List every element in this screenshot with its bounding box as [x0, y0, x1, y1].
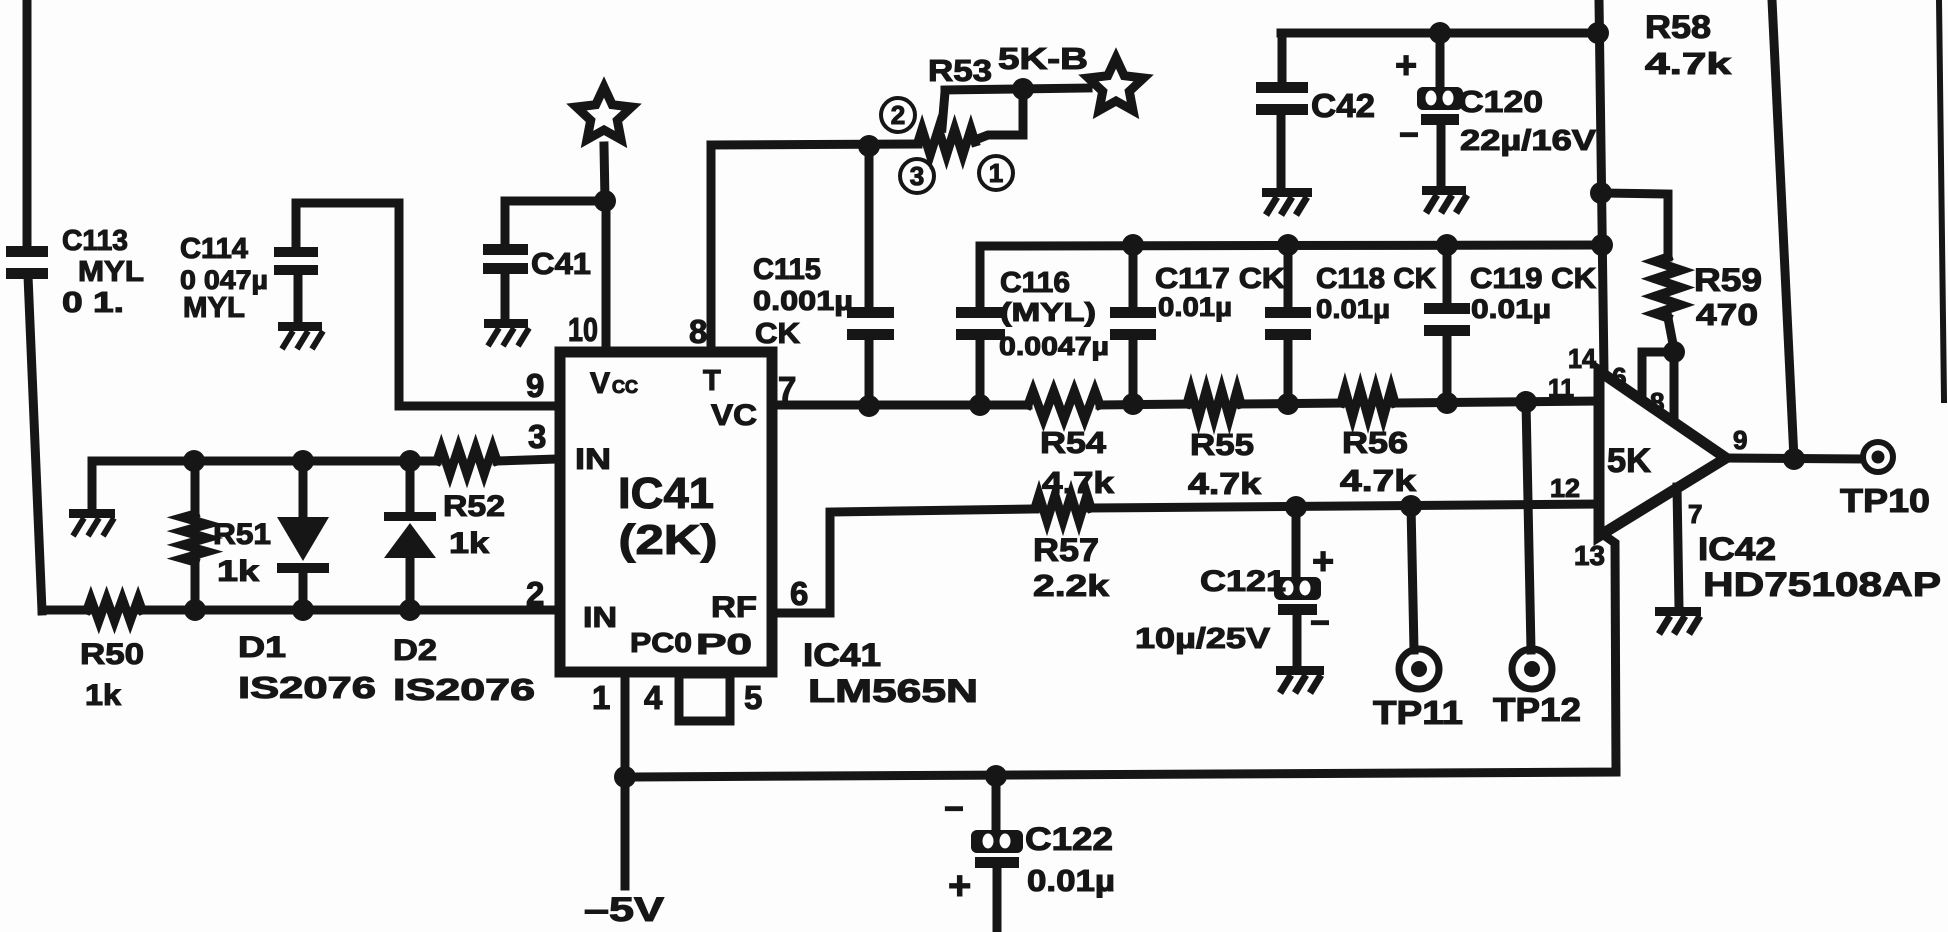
potentiometer R53 body — [918, 129, 975, 155]
diode D1 — [299, 461, 308, 518]
junction node C118 top — [1277, 234, 1299, 256]
svg-text:2.2k: 2.2k — [1033, 568, 1110, 603]
svg-text:−: − — [1310, 604, 1330, 642]
svg-text:22µ/16V: 22µ/16V — [1460, 125, 1597, 157]
svg-text:VC: VC — [711, 399, 757, 432]
svg-text:MYL: MYL — [78, 256, 144, 288]
terminal mark 1 of R53 — [979, 156, 1013, 190]
wire right edge rail — [1939, 0, 1944, 400]
svg-text:4.7k: 4.7k — [1645, 46, 1732, 81]
resistor R52 — [437, 448, 497, 474]
svg-text:8: 8 — [689, 313, 707, 350]
wire star to pin 10 of IC41 — [604, 146, 605, 200]
ground C120 — [1422, 186, 1466, 195]
wire TP12 lead — [1526, 402, 1531, 650]
capacitor C42 with leads — [1278, 33, 1287, 82]
svg-text:0.001µ: 0.001µ — [753, 285, 853, 316]
wire top supply rail — [1281, 29, 1599, 38]
svg-text:470: 470 — [1696, 297, 1758, 332]
svg-text:C122: C122 — [1025, 821, 1113, 857]
resistor R55 — [1187, 390, 1241, 418]
svg-text:(2K): (2K) — [619, 516, 718, 563]
test point TP11 — [1399, 649, 1439, 689]
svg-text:0.0047µ: 0.0047µ — [999, 331, 1109, 361]
wire C115 to VC rail — [865, 340, 874, 406]
junction node C121 top — [1285, 496, 1307, 518]
wire IC42 output to TP10 — [1726, 458, 1859, 459]
svg-text:13: 13 — [1574, 540, 1605, 571]
junction node C115/VC — [858, 395, 880, 417]
junction node C119 top — [1436, 234, 1458, 256]
junction node C119/VC — [1436, 392, 1458, 414]
capacitor C117 with leads — [1129, 245, 1138, 307]
wire pin 7 of IC42 to ground — [1677, 487, 1679, 608]
wire VC rail segment a — [777, 401, 1028, 410]
wire bottom rail to pin 2 of IC41 — [42, 606, 87, 615]
wire pin 13 to bottom rail — [625, 533, 1616, 777]
svg-text:HD75108AP: HD75108AP — [1703, 566, 1941, 604]
capacitor C113 — [6, 246, 48, 257]
svg-text:CK: CK — [755, 318, 800, 350]
svg-text:R54: R54 — [1040, 425, 1107, 460]
svg-text:C41: C41 — [531, 246, 591, 281]
junction node star/C41/pin10 — [594, 190, 616, 212]
wire pin 6 to R57 — [777, 509, 1035, 613]
svg-text:12: 12 — [1550, 473, 1580, 503]
resistor R50 — [87, 599, 142, 621]
wire C115 riser — [865, 146, 874, 307]
svg-text:P0: P0 — [696, 629, 752, 661]
svg-text:10: 10 — [568, 311, 598, 348]
junction node output/rail — [1783, 448, 1805, 470]
svg-text:+: + — [1395, 45, 1417, 87]
svg-text:R51: R51 — [213, 518, 271, 551]
star mark (tuning point) near R53 — [1088, 58, 1143, 111]
svg-text:R53: R53 — [928, 53, 992, 88]
capacitor C119 with leads — [1443, 245, 1452, 303]
test point TP10 — [1863, 442, 1893, 472]
svg-text:3: 3 — [910, 161, 924, 191]
svg-text:C121: C121 — [1200, 565, 1286, 598]
ground left rail — [69, 509, 115, 518]
star mark (tuning point) near C41 — [576, 87, 631, 140]
wire TP11 lead — [1411, 506, 1414, 650]
junction node R51 bottom — [184, 599, 206, 621]
svg-text:D1: D1 — [238, 631, 286, 664]
wire C114 bottom to ground — [294, 275, 303, 323]
svg-text:4.7k: 4.7k — [1188, 466, 1262, 501]
junction node TP12/VC — [1515, 391, 1537, 413]
capacitor C114 — [274, 247, 318, 257]
wire R57 to pin 12 of IC42 — [1091, 504, 1598, 508]
svg-text:R59: R59 — [1694, 262, 1762, 298]
svg-text:+: + — [948, 864, 971, 908]
terminal mark 3 of R53 — [900, 159, 934, 193]
svg-text:−: − — [944, 790, 964, 828]
capacitor C116 with leads — [976, 246, 985, 307]
test point TP12 — [1512, 649, 1552, 689]
capacitor C118 with leads — [1284, 245, 1293, 307]
wire pin 1 of IC41 to -5V — [621, 677, 630, 886]
svg-text:(MYL): (MYL) — [1000, 297, 1096, 327]
svg-text:1k: 1k — [85, 679, 121, 712]
svg-text:1k: 1k — [449, 527, 489, 560]
wire C121 to ground — [1293, 613, 1302, 667]
capacitor C122 (electrolytic) — [971, 830, 1023, 853]
svg-text:0 047µ: 0 047µ — [180, 265, 268, 295]
svg-text:5: 5 — [744, 679, 762, 716]
svg-text:4.7k: 4.7k — [1340, 463, 1417, 498]
junction node D1 bottom — [292, 599, 314, 621]
svg-text:C118 CK: C118 CK — [1316, 263, 1436, 295]
wire VC rail segment c — [1241, 403, 1341, 404]
ground IC42 pin 7 — [1655, 607, 1701, 616]
svg-text:D2: D2 — [393, 634, 437, 667]
wire C41 top to star node — [505, 201, 606, 244]
capacitor C120 (electrolytic) with leads — [1436, 33, 1445, 87]
wire C122 top lead — [992, 776, 1001, 830]
svg-text:CC: CC — [612, 377, 638, 397]
svg-text:11: 11 — [1548, 373, 1574, 403]
capacitor C115 — [847, 307, 894, 318]
svg-text:PC0: PC0 — [630, 627, 692, 658]
junction node D2 bottom — [399, 599, 421, 621]
svg-text:TP12: TP12 — [1493, 691, 1581, 728]
svg-text:5K: 5K — [1607, 442, 1651, 480]
svg-text:IN: IN — [583, 602, 617, 634]
junction node C117 top — [1122, 234, 1144, 256]
junction node C116/VC — [969, 394, 991, 416]
svg-text:R56: R56 — [1342, 425, 1408, 460]
wire R53 end-1 loop — [975, 90, 1023, 140]
jumper box pins 4-5 of IC41 — [679, 674, 730, 721]
svg-text:C117 CK: C117 CK — [1155, 263, 1285, 295]
diode D2 — [406, 461, 415, 513]
svg-text:14: 14 — [1568, 343, 1596, 374]
junction node C120 top — [1429, 22, 1451, 44]
op-amp IC41 LM565N box — [560, 352, 772, 672]
svg-text:R57: R57 — [1033, 532, 1099, 568]
junction node TP11 takeoff — [1400, 495, 1422, 517]
svg-text:IS2076: IS2076 — [238, 670, 376, 705]
junction node D1 top — [292, 450, 314, 472]
svg-text:C114: C114 — [180, 233, 248, 265]
svg-text:V: V — [590, 367, 610, 400]
wire C122 bottom lead — [993, 866, 1002, 932]
ground C41 — [484, 319, 528, 328]
wire top rail of C116-C119 — [980, 245, 1602, 246]
svg-text:C115: C115 — [753, 253, 821, 286]
svg-text:LM565N: LM565N — [808, 673, 978, 709]
wire R59 top lead — [1601, 193, 1668, 257]
junction node C118/VC — [1277, 393, 1299, 415]
wire R53 wiper — [942, 92, 945, 128]
svg-text:T: T — [703, 365, 721, 397]
wire left vertical rail — [23, 0, 32, 248]
svg-text:IC41: IC41 — [803, 637, 881, 673]
svg-text:TP11: TP11 — [1373, 694, 1463, 731]
resistor R57 — [1035, 495, 1091, 521]
wire C41 bottom to ground — [501, 274, 510, 320]
svg-text:1: 1 — [592, 679, 610, 716]
svg-text:C120: C120 — [1458, 84, 1543, 119]
wire R59 bottom lead — [1668, 318, 1673, 344]
svg-text:0.01µ: 0.01µ — [1316, 294, 1390, 324]
svg-text:–5V: –5V — [584, 891, 664, 929]
terminal mark 2 of R53 — [881, 98, 915, 132]
resistor R59 — [1655, 257, 1681, 318]
junction node pin1/bottom rail — [614, 766, 636, 788]
svg-text:R55: R55 — [1190, 427, 1254, 462]
svg-text:0.01µ: 0.01µ — [1471, 294, 1551, 324]
junction node C122 top — [985, 765, 1007, 787]
svg-text:9: 9 — [1733, 425, 1747, 455]
svg-text:MYL: MYL — [183, 292, 245, 324]
ground C121 — [1276, 666, 1324, 675]
svg-text:5K‑B: 5K‑B — [998, 41, 1088, 76]
svg-text:C113: C113 — [62, 225, 128, 257]
junction node pin8/C115/R53 — [858, 135, 880, 157]
junction node R51 top — [183, 450, 205, 472]
svg-text:0 1.: 0 1. — [62, 287, 124, 319]
svg-text:−: − — [1399, 116, 1419, 154]
wire R53 wiper to star — [945, 88, 1088, 90]
svg-text:RF: RF — [711, 591, 757, 624]
resistor R56 — [1341, 389, 1395, 417]
junction node D2 top — [399, 450, 421, 472]
svg-text:IS2076: IS2076 — [393, 672, 535, 707]
svg-text:6: 6 — [790, 575, 808, 612]
svg-text:IC41: IC41 — [618, 469, 714, 518]
wire R59 to pin 6 of IC42 — [1642, 352, 1674, 398]
wire right tall rail — [1772, 0, 1794, 459]
ground C42 — [1262, 188, 1312, 197]
capacitor C121 (electrolytic) — [1274, 577, 1321, 600]
wire C114 to pin 9 of IC41 — [296, 203, 556, 406]
svg-text:IN: IN — [575, 443, 611, 476]
wire right vertical to pin 14 — [1599, 0, 1604, 372]
wire R59 to pin 8 of IC42 — [1670, 352, 1679, 421]
svg-text:2: 2 — [526, 575, 544, 612]
svg-text:R50: R50 — [80, 638, 144, 671]
wire VC rail segment b — [1100, 404, 1187, 405]
junction node R59 bottom — [1663, 341, 1685, 363]
svg-text:1: 1 — [989, 158, 1003, 188]
ground C114 — [278, 322, 322, 331]
svg-text:0.01µ: 0.01µ — [1158, 292, 1232, 322]
junction node R53 wiper/end — [1012, 78, 1034, 100]
wire C121 top lead — [1292, 507, 1301, 577]
svg-text:7: 7 — [1688, 499, 1702, 529]
resistor R51 — [191, 461, 200, 514]
svg-text:0.01µ: 0.01µ — [1027, 863, 1115, 898]
svg-text:IC42: IC42 — [1698, 531, 1776, 567]
junction node C117/VC — [1122, 393, 1144, 415]
junction node top rail/vertical — [1587, 22, 1609, 44]
junction node R59 takeoff — [1590, 182, 1612, 204]
capacitor C41 — [483, 244, 528, 255]
comparator IC42 triangle — [1599, 371, 1726, 536]
svg-text:C42: C42 — [1311, 87, 1375, 124]
svg-text:10µ/25V: 10µ/25V — [1135, 623, 1271, 655]
resistor R54 — [1028, 391, 1100, 419]
svg-text:R58: R58 — [1645, 9, 1711, 45]
svg-text:R52: R52 — [443, 490, 505, 523]
svg-text:TP10: TP10 — [1840, 482, 1930, 519]
svg-text:3: 3 — [528, 418, 546, 455]
wire ground rail y461 (pins 3 net) — [92, 457, 437, 466]
junction node C116 rail/vertical — [1591, 234, 1613, 256]
svg-text:C116: C116 — [1000, 267, 1070, 299]
wire VC rail segment d — [1395, 401, 1596, 403]
svg-text:+: + — [1312, 541, 1334, 583]
wire pin 8 riser of IC41 — [707, 145, 716, 348]
svg-text:2: 2 — [891, 100, 905, 130]
svg-text:1k: 1k — [217, 555, 259, 588]
svg-text:C119 CK: C119 CK — [1470, 263, 1596, 295]
svg-text:4: 4 — [644, 679, 663, 716]
svg-text:9: 9 — [526, 367, 544, 404]
